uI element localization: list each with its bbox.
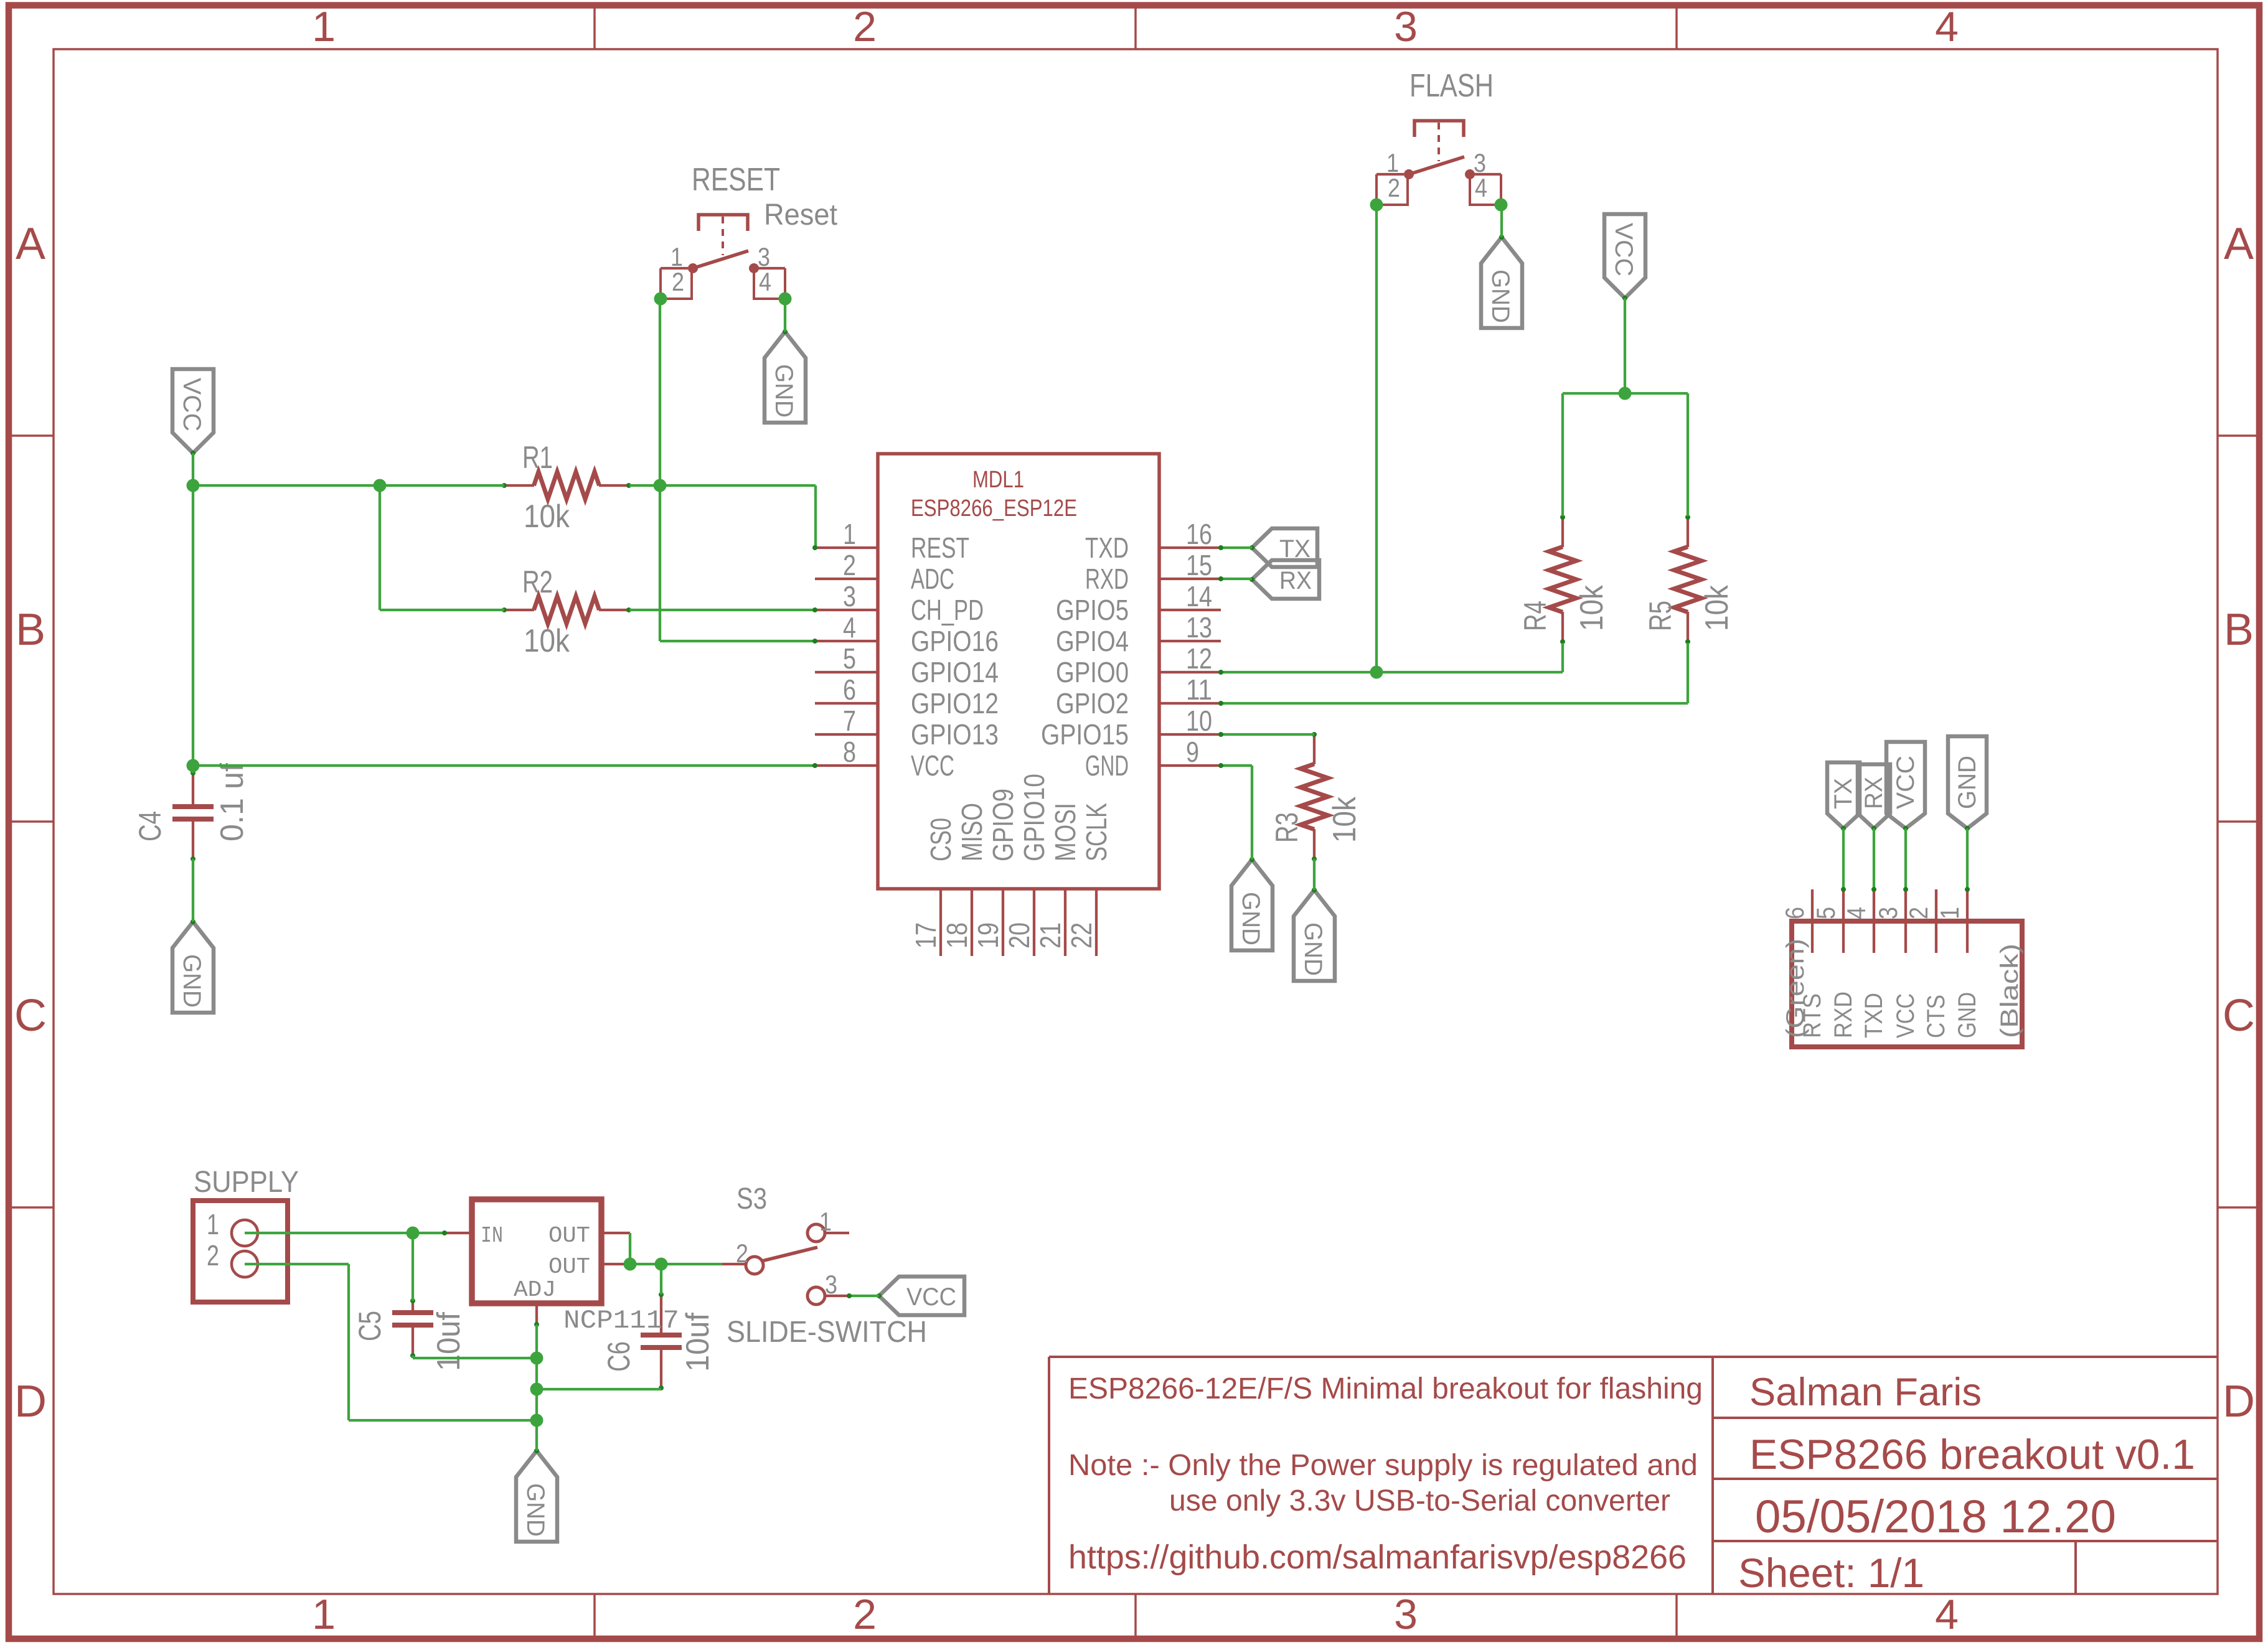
svg-text:12: 12 — [1186, 642, 1212, 675]
svg-text:C: C — [2223, 991, 2255, 1041]
svg-text:R1: R1 — [522, 440, 553, 475]
svg-text:GPIO0: GPIO0 — [1056, 656, 1129, 688]
svg-text:GND: GND — [770, 364, 798, 418]
svg-text:22: 22 — [1065, 922, 1098, 949]
svg-text:FLASH: FLASH — [1409, 68, 1494, 104]
svg-text:GPIO5: GPIO5 — [1056, 594, 1129, 626]
svg-text:CS0: CS0 — [925, 818, 957, 861]
svg-text:ESP8266 breakout v0.1: ESP8266 breakout v0.1 — [1749, 1431, 2195, 1478]
svg-text:GPIO13: GPIO13 — [911, 718, 999, 751]
svg-text:A: A — [2224, 219, 2254, 269]
svg-text:VCC: VCC — [1610, 223, 1637, 276]
svg-text:C4: C4 — [133, 811, 167, 841]
svg-text:10k: 10k — [524, 623, 570, 659]
svg-text:ADC: ADC — [911, 563, 954, 595]
svg-text:R2: R2 — [522, 565, 553, 599]
svg-text:20: 20 — [1003, 922, 1035, 949]
svg-text:RX: RX — [1860, 777, 1888, 809]
svg-text:RXD: RXD — [1085, 563, 1129, 595]
svg-text:6: 6 — [1780, 907, 1809, 919]
svg-text:VCC: VCC — [178, 378, 205, 431]
svg-text:GND: GND — [1237, 892, 1264, 945]
svg-text:GPIO15: GPIO15 — [1041, 718, 1129, 751]
svg-text:OUT: OUT — [548, 1223, 590, 1249]
svg-text:A: A — [16, 219, 45, 269]
svg-text:RXD: RXD — [1830, 991, 1857, 1038]
svg-text:7: 7 — [843, 705, 856, 737]
svg-text:2: 2 — [736, 1239, 748, 1268]
svg-text:10k: 10k — [1699, 584, 1735, 631]
svg-text:D: D — [2223, 1377, 2255, 1427]
svg-text:10uf: 10uf — [431, 1311, 467, 1371]
svg-text:21: 21 — [1034, 922, 1066, 949]
svg-text:8: 8 — [843, 736, 856, 768]
svg-text:ESP8266_ESP12E: ESP8266_ESP12E — [911, 495, 1077, 522]
svg-text:https://github.com/salmanfaris: https://github.com/salmanfarisvp/esp8266 — [1068, 1539, 1687, 1576]
svg-text:10k: 10k — [1574, 584, 1610, 631]
svg-text:4: 4 — [1935, 3, 1959, 50]
svg-text:GPIO10: GPIO10 — [1018, 774, 1050, 861]
svg-text:REST: REST — [911, 532, 969, 564]
svg-text:GPIO4: GPIO4 — [1056, 625, 1129, 657]
svg-text:OUT: OUT — [548, 1254, 590, 1280]
svg-text:(Black): (Black) — [1996, 944, 2023, 1038]
svg-text:16: 16 — [1186, 518, 1212, 550]
svg-text:1: 1 — [312, 1591, 336, 1638]
svg-text:3: 3 — [1394, 3, 1418, 50]
svg-text:GND: GND — [1954, 756, 1981, 809]
svg-text:RX: RX — [1279, 567, 1312, 594]
svg-text:ESP8266-12E/F/S Minimal breako: ESP8266-12E/F/S Minimal breakout for fla… — [1068, 1372, 1703, 1405]
svg-text:18: 18 — [941, 922, 973, 949]
svg-text:GND: GND — [178, 954, 205, 1008]
svg-text:2: 2 — [853, 1591, 877, 1638]
svg-text:10k: 10k — [524, 499, 570, 535]
svg-text:4: 4 — [1935, 1591, 1959, 1638]
svg-text:GND: GND — [1085, 749, 1129, 782]
svg-text:4: 4 — [759, 267, 771, 296]
svg-text:B: B — [16, 605, 45, 655]
svg-text:VCC: VCC — [911, 749, 954, 782]
svg-text:3: 3 — [843, 580, 856, 612]
svg-text:TXD: TXD — [1085, 532, 1129, 564]
svg-text:TXD: TXD — [1860, 993, 1888, 1038]
svg-text:2: 2 — [843, 549, 856, 581]
svg-text:VCC: VCC — [906, 1283, 956, 1311]
svg-text:SCLK: SCLK — [1080, 803, 1113, 861]
svg-text:5: 5 — [843, 642, 856, 675]
svg-text:17: 17 — [910, 922, 942, 949]
svg-text:B: B — [2224, 605, 2254, 655]
svg-text:GPIO14: GPIO14 — [911, 656, 999, 688]
svg-text:4: 4 — [1842, 907, 1871, 919]
svg-text:Salman Faris: Salman Faris — [1749, 1371, 1982, 1414]
svg-text:IN: IN — [481, 1223, 503, 1249]
svg-text:MISO: MISO — [956, 803, 988, 861]
svg-text:GPIO2: GPIO2 — [1056, 687, 1129, 719]
svg-text:Sheet: 1/1: Sheet: 1/1 — [1738, 1550, 1924, 1596]
svg-text:2: 2 — [672, 267, 684, 296]
svg-text:VCC: VCC — [1892, 993, 1919, 1038]
svg-text:2: 2 — [1904, 907, 1933, 919]
svg-text:10uf: 10uf — [680, 1312, 716, 1372]
svg-text:RTS: RTS — [1799, 993, 1826, 1038]
svg-text:6: 6 — [843, 673, 856, 706]
svg-text:S3: S3 — [736, 1183, 767, 1216]
svg-text:1: 1 — [1935, 907, 1964, 919]
svg-text:MOSI: MOSI — [1049, 803, 1081, 861]
svg-text:R5: R5 — [1643, 601, 1678, 631]
svg-text:use only 3.3v USB-to-Serial co: use only 3.3v USB-to-Serial converter — [1169, 1484, 1670, 1517]
svg-text:1: 1 — [312, 3, 336, 50]
svg-text:1: 1 — [819, 1207, 832, 1236]
svg-text:13: 13 — [1186, 611, 1212, 644]
svg-text:Note :- Only the Power supply: Note :- Only the Power supply is regulat… — [1068, 1449, 1698, 1482]
svg-text:R4: R4 — [1518, 601, 1553, 631]
svg-text:GND: GND — [522, 1483, 549, 1537]
svg-text:GPIO9: GPIO9 — [987, 789, 1019, 861]
svg-text:GND: GND — [1299, 922, 1327, 976]
svg-text:ADJ: ADJ — [514, 1277, 556, 1303]
svg-text:3: 3 — [1873, 907, 1903, 919]
svg-text:Reset: Reset — [764, 199, 837, 232]
svg-text:1: 1 — [207, 1208, 219, 1240]
svg-text:15: 15 — [1186, 549, 1212, 581]
svg-text:4: 4 — [1475, 173, 1487, 202]
svg-text:9: 9 — [1186, 736, 1199, 768]
svg-text:2: 2 — [1388, 173, 1400, 202]
svg-text:2: 2 — [853, 3, 877, 50]
svg-text:CH_PD: CH_PD — [911, 594, 984, 626]
svg-text:11: 11 — [1186, 673, 1212, 706]
svg-text:GPIO12: GPIO12 — [911, 687, 999, 719]
svg-text:R3: R3 — [1269, 812, 1304, 843]
svg-text:D: D — [14, 1377, 47, 1427]
svg-text:TX: TX — [1830, 778, 1857, 809]
svg-text:3: 3 — [1394, 1591, 1418, 1638]
svg-text:C6: C6 — [601, 1341, 636, 1372]
svg-text:4: 4 — [843, 611, 856, 644]
svg-text:RESET: RESET — [692, 162, 780, 198]
svg-text:2: 2 — [207, 1239, 219, 1272]
svg-text:0.1 uf: 0.1 uf — [214, 762, 250, 841]
svg-text:5: 5 — [1811, 907, 1840, 919]
svg-text:3: 3 — [825, 1270, 837, 1299]
svg-text:VCC: VCC — [1892, 756, 1919, 809]
svg-text:14: 14 — [1186, 580, 1212, 612]
svg-text:10k: 10k — [1327, 796, 1363, 843]
svg-text:GND: GND — [1954, 992, 1981, 1038]
svg-text:GND: GND — [1487, 269, 1514, 323]
svg-text:SLIDE-SWITCH: SLIDE-SWITCH — [727, 1316, 927, 1349]
svg-text:19: 19 — [972, 922, 1004, 949]
svg-text:10: 10 — [1186, 705, 1212, 737]
svg-text:GPIO16: GPIO16 — [911, 625, 999, 657]
svg-text:C5: C5 — [352, 1311, 387, 1341]
svg-text:05/05/2018 12.20: 05/05/2018 12.20 — [1755, 1491, 2116, 1542]
svg-text:MDL1: MDL1 — [972, 467, 1024, 493]
svg-text:SUPPLY: SUPPLY — [194, 1166, 299, 1199]
svg-text:1: 1 — [843, 518, 856, 550]
svg-text:CTS: CTS — [1922, 995, 1950, 1038]
svg-text:C: C — [14, 991, 47, 1041]
svg-text:NCP1117: NCP1117 — [563, 1306, 679, 1336]
